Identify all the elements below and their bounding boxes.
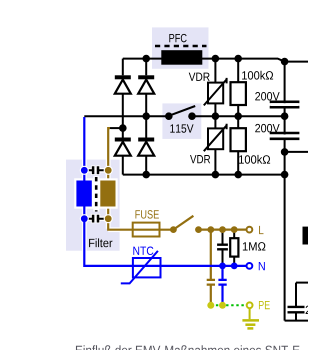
label 1MOhm [243, 242, 266, 250]
junction dots bottom bus [142, 171, 288, 179]
label PFC [169, 34, 186, 43]
label FUSE [135, 210, 158, 219]
wire N line [84, 219, 246, 266]
terminal PE [247, 302, 253, 308]
inductor filter winding (blue) [75, 179, 93, 207]
diode D3 (bridge lower-left) [115, 138, 131, 175]
wire mid bus right [192, 115, 285, 117]
label 100kOhm (bottom) [239, 155, 270, 164]
switch S1 (mains) [170, 216, 202, 233]
capacitor C1 200V [270, 102, 300, 107]
label 2 (clipped cap value) [306, 306, 311, 314]
diode D1 (bridge upper-left) [115, 59, 131, 138]
highlight box Filter [66, 160, 120, 251]
highlight box 115V switch [162, 103, 201, 138]
label VDR (top) [189, 73, 210, 81]
varistor VDR2 [204, 116, 227, 174]
capacitor C3 (L-N cap) [217, 232, 228, 263]
capacitor CX2 (X-cap bottom of filter) [84, 215, 108, 223]
ground earth symbol [242, 308, 259, 328]
label NTC [133, 247, 153, 256]
label Filter [89, 238, 112, 247]
junction blue bottom [80, 214, 89, 223]
switch 115V [165, 106, 196, 120]
block (partial box at right edge) [303, 227, 310, 245]
wire blue through filter [83, 170, 85, 218]
capacitor C2 200V [270, 133, 300, 139]
junction dots top bus [142, 55, 288, 66]
thermistor NTC [121, 251, 161, 284]
wire blue live path from bridge to filter [83, 117, 85, 170]
wire neutral tap to bridge [109, 127, 123, 129]
junction dots N line [219, 263, 238, 270]
label PE [259, 301, 270, 309]
inductor PFC choke [155, 46, 207, 65]
resistor R1 100kOhm [231, 59, 246, 117]
junction PE yellow dots [207, 302, 226, 309]
halo white under filter elements [84, 118, 120, 264]
capacitor CY3 (output Y-cap) [288, 283, 309, 321]
caption (clipped) [76, 345, 300, 350]
wire blue Y-cap branch [221, 266, 223, 280]
inductor filter winding (olive) [99, 179, 116, 207]
label 200V (bottom) [255, 124, 279, 133]
wire top bus [123, 59, 308, 62]
varistor VDR1 [204, 59, 227, 117]
label N [259, 262, 265, 270]
wire mid output to right [285, 151, 308, 153]
junction olive bottom [104, 214, 113, 223]
label L [259, 226, 263, 234]
label 115V [170, 124, 193, 132]
junction dot mid output [281, 148, 289, 156]
wire olive Y-cap branch [210, 230, 212, 280]
capacitor CY2 (blue) [218, 280, 226, 303]
label 200V (top) [255, 92, 279, 101]
resistor R3 1MOhm [230, 232, 238, 263]
label 100kOhm (top) [242, 71, 273, 80]
junction dots L line [207, 226, 237, 233]
highlight box PFC [152, 27, 209, 68]
diode D4 (bridge lower-right) [138, 138, 154, 175]
wire L line [199, 229, 247, 231]
halo white column behind choke core [93, 176, 99, 211]
junction olive top [104, 166, 113, 175]
junction dots mid bus [142, 112, 288, 120]
diode D2 (bridge upper-right) [138, 59, 154, 138]
capacitor CY1 (olive) [207, 280, 215, 303]
junction dot neutral tap [119, 124, 127, 132]
junction blue top [80, 166, 89, 175]
terminal L [247, 227, 253, 233]
wire right rail [285, 62, 308, 321]
terminal N [247, 263, 253, 269]
resistor R2 100kOhm [231, 116, 246, 174]
fuse F1 [133, 223, 160, 237]
wire bottom bus [123, 174, 285, 176]
label VDR (bottom) [190, 155, 210, 163]
wire PE (green dashed) [211, 304, 247, 306]
core line of filter choke [95, 177, 98, 212]
wire olive neutral path [108, 128, 173, 230]
capacitor CX1 (X-cap top of filter) [84, 166, 108, 174]
wire mid bus left [84, 115, 169, 117]
